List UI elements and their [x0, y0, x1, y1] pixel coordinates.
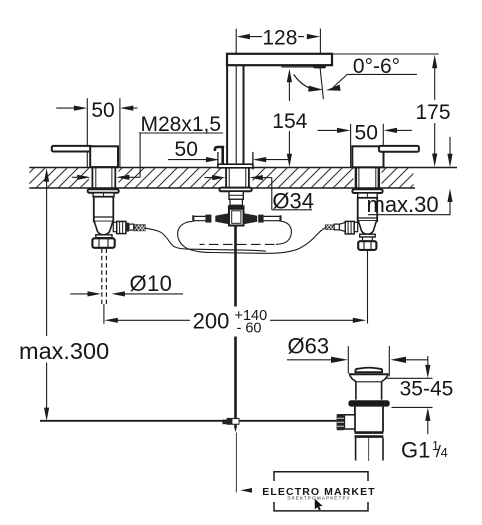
rod junction clamp inner	[232, 419, 238, 424]
drain body right wall	[382, 407, 384, 432]
diameter 63 right shaft	[405, 359, 428, 361]
left valve nut	[92, 238, 114, 248]
dimension max30 arrow down	[447, 154, 452, 167]
middle 50 arrow left	[253, 157, 266, 162]
right valve outlet tube	[334, 224, 339, 230]
dimension 128 arrow left	[237, 34, 250, 39]
middle 50 dim left shaft	[168, 159, 207, 161]
svg-text:Ø63: Ø63	[288, 334, 330, 359]
drain lever collar	[344, 415, 355, 429]
hose from T right tube	[276, 221, 291, 244]
M28 left arrow shaft	[72, 176, 79, 178]
dimension 200 arrow right	[353, 318, 366, 323]
T left tube	[194, 216, 205, 220]
dimension 128 left extension (shared riser line above)	[319, 29, 321, 54]
spout base upper left edge	[217, 152, 219, 164]
angle arc	[294, 75, 318, 91]
right valve outlet step	[354, 222, 358, 231]
drain body left wall	[354, 407, 356, 432]
center neck upper	[229, 191, 243, 199]
dimension 200 line left	[117, 319, 191, 321]
T right cone fitting	[244, 213, 258, 224]
spout horizontal body	[227, 54, 332, 65]
left valve outlet ridges	[120, 221, 123, 233]
countertop hatching	[14, 167, 431, 188]
drain flange plate	[349, 373, 389, 375]
left handle 50 arrow right	[74, 106, 87, 111]
left valve outlet tube	[129, 224, 134, 230]
left valve collar	[93, 193, 114, 197]
left valve outlet dark band	[126, 223, 129, 232]
drain funnel right	[382, 374, 388, 400]
watermark frame top bracket	[274, 472, 368, 481]
spout riser left edge	[226, 65, 228, 164]
center shank in counter	[226, 168, 249, 188]
dimension diameter 10 left shaft	[70, 293, 89, 295]
T left small block	[205, 215, 211, 223]
dimension 35-45 arrow down	[425, 365, 430, 378]
left valve body band	[94, 216, 114, 218]
drain cap dome	[355, 368, 382, 373]
drain funnel left	[350, 374, 356, 400]
dimension 200 arrow left	[104, 318, 117, 323]
hose from T left tube to right valve	[178, 221, 326, 253]
svg-text:50: 50	[91, 99, 114, 122]
drain tailpipe right	[382, 438, 384, 461]
drain extension line right	[388, 346, 390, 376]
dimension 128 arrow right	[307, 34, 320, 39]
drain axis line	[368, 438, 370, 461]
right valve nut facets	[364, 241, 371, 250]
diameter 34 left shaft	[205, 177, 214, 179]
tilted stream line 6deg	[320, 67, 323, 99]
rod pointed tip	[234, 427, 237, 432]
dimension 128 line	[250, 36, 305, 38]
label M28x1,5 underline	[139, 132, 223, 134]
dimension max300 arrow up	[44, 168, 49, 181]
right valve outlet ridges	[348, 221, 351, 234]
dimension 175 arrow down	[432, 154, 437, 167]
left hose braid pattern	[135, 225, 146, 231]
left handle 50 extension left	[86, 98, 88, 167]
G1 fraction slash	[436, 445, 440, 457]
right valve nut	[358, 241, 376, 250]
dimension 175 arrow up	[432, 55, 437, 68]
middle 50 right shaft	[265, 159, 289, 161]
drain o-ring	[348, 400, 389, 406]
svg-text:50: 50	[355, 121, 378, 144]
left hose braided end block	[134, 224, 146, 231]
top reference line to 175 dim	[332, 53, 439, 55]
left valve outlet ridged nut	[117, 221, 126, 233]
svg-text:35-45: 35-45	[400, 378, 454, 401]
pop-up vertical rod	[234, 226, 237, 428]
T left cone fitting	[215, 213, 229, 224]
center neck lower	[230, 199, 242, 205]
left handle body	[90, 146, 118, 167]
angle leader arrowhead	[326, 85, 341, 91]
dimension max300 lower line	[46, 363, 48, 410]
right handle 50 dim line right	[396, 129, 412, 131]
drain knurled knob	[337, 414, 345, 430]
aerator	[312, 65, 328, 69]
rod junction clamp	[227, 418, 240, 425]
M28 arrow pointing left at shank	[116, 175, 129, 180]
right handle 50 extension right	[382, 124, 384, 167]
aerator reference line	[281, 66, 326, 68]
dimension 175 line upper	[434, 67, 436, 100]
spout riser 128 extension line	[235, 29, 237, 164]
right valve neck	[363, 237, 373, 241]
diameter 34 arrow right at center shank	[212, 175, 225, 180]
dashed pop-up rod left	[101, 249, 103, 305]
right valve collar	[358, 193, 378, 198]
center flange below counter	[220, 188, 252, 192]
svg-text:Ø10: Ø10	[130, 271, 173, 296]
right valve lower plate	[360, 234, 376, 237]
left handle 50 extension right	[119, 98, 121, 167]
left valve flange	[88, 189, 119, 193]
angle arc arrowhead right	[308, 86, 323, 92]
right handle lever	[379, 146, 419, 152]
diameter 34 leader vertical	[271, 178, 273, 210]
dimension diameter 10 right shaft	[124, 293, 184, 295]
dimension 154 arrow up	[287, 69, 292, 82]
right handle 50 arrow right	[337, 128, 350, 133]
svg-text:175: 175	[415, 101, 450, 124]
diameter 63 arrow left	[391, 357, 407, 363]
extension line below rod	[103, 304, 105, 324]
right hose braid pattern	[326, 225, 335, 230]
small arrow at axis bottom	[241, 488, 253, 493]
spout base plate	[218, 164, 253, 168]
drain lever horizontal rod	[40, 420, 337, 422]
spout base upper right edge	[252, 152, 254, 164]
drain tailpipe left	[355, 438, 357, 461]
left valve lower plate	[96, 235, 112, 238]
svg-text:max.300: max.300	[19, 338, 109, 364]
left handle 50 dim line left	[56, 107, 75, 109]
hose from left valve	[146, 228, 266, 251]
svg-text:50: 50	[175, 138, 198, 161]
right handle 50 extension left	[350, 124, 352, 167]
middle 50 arrow right	[206, 157, 219, 162]
label 0-6 degrees underline	[347, 73, 417, 75]
diameter 63 shaft underline	[287, 359, 334, 361]
right valve bowl	[358, 221, 376, 234]
dimension max300 upper line	[46, 181, 48, 337]
right handle 50 dim line left	[318, 129, 339, 131]
extension line at flange bottom	[385, 377, 433, 379]
right hose braided end block	[325, 225, 335, 231]
dimension max30 upper shaft	[449, 137, 451, 155]
left valve nut facets	[99, 238, 108, 248]
center dark band	[228, 205, 245, 209]
center T body	[229, 209, 244, 226]
right handle body	[352, 146, 383, 167]
extension line at o-ring	[392, 406, 433, 408]
T left tube end cap	[192, 215, 194, 221]
left valve body	[94, 197, 114, 222]
right valve collar split	[366, 193, 368, 198]
svg-text:G1: G1	[401, 438, 430, 463]
dimension 154 line upper	[288, 80, 290, 101]
dimension 35-45 arrow up	[425, 408, 430, 421]
drain neck line	[356, 381, 382, 383]
dimension diameter 10 arrow left	[112, 291, 125, 296]
drain knob ridges	[337, 418, 344, 426]
right handle 50 arrow left	[384, 128, 397, 133]
center T inner square	[232, 211, 241, 224]
right valve outlet cone	[339, 222, 345, 231]
M28 leader vertical	[139, 133, 141, 177]
svg-text:- 60: - 60	[237, 320, 262, 336]
right shank in counter	[356, 168, 379, 188]
dimension 35-45 upper shaft	[427, 356, 429, 367]
diameter 63 arrow right	[331, 357, 348, 363]
M28 arrow pointing right at shank	[77, 175, 90, 180]
dimension max30 lower shaft	[449, 201, 451, 215]
T right small block	[258, 215, 263, 223]
label diameter 34 underline	[272, 209, 312, 211]
T right tube end cap	[279, 215, 281, 221]
left valve collar split	[103, 193, 105, 197]
dimension max300 arrow down	[44, 408, 49, 421]
right valve extension line	[367, 251, 369, 324]
right valve body band	[358, 217, 378, 219]
dimension 175 line lower	[434, 123, 436, 155]
svg-text:max.30: max.30	[367, 192, 439, 217]
center neck line	[229, 194, 243, 196]
svg-text:0°-6°: 0°-6°	[353, 55, 400, 78]
left handle lever	[52, 146, 92, 152]
svg-text:4: 4	[441, 446, 448, 460]
left handle 50 dim line right	[132, 107, 138, 109]
M28 leader horizontal	[128, 176, 140, 178]
watermark frame bottom bracket	[274, 502, 368, 511]
rod junction nub	[222, 420, 226, 425]
hose hidden chain line	[200, 243, 275, 245]
left handle 50 arrow left	[120, 106, 133, 111]
dimension 154 line lower	[288, 131, 290, 155]
drain extension line left	[347, 346, 349, 374]
left valve bowl	[94, 222, 113, 235]
right valve flange	[352, 189, 382, 193]
svg-text:154: 154	[272, 110, 307, 133]
diameter 34 arrow left at center shank	[249, 175, 262, 180]
drain locknut	[355, 433, 384, 437]
angle label leader line	[333, 74, 347, 87]
mouse cursor	[315, 499, 323, 511]
svg-text:200: 200	[193, 309, 230, 334]
pop-up knob hook	[215, 147, 224, 165]
spout riser right edge	[243, 65, 245, 164]
dimension max30 arrow up	[447, 189, 452, 202]
center axis lower extension	[235, 433, 237, 493]
countertop bottom line	[29, 187, 415, 189]
left shank in counter	[92, 168, 115, 188]
dimension diameter 10 arrow right	[88, 291, 101, 296]
svg-text:128: 128	[262, 26, 297, 49]
countertop top line	[29, 167, 457, 169]
left valve outlet step	[113, 222, 116, 231]
right valve outlet ridged nut	[345, 221, 354, 234]
right valve body	[358, 198, 378, 221]
dimension 35-45 lower shaft	[427, 420, 429, 435]
dimension max30 shelf line	[368, 214, 451, 216]
diameter 34 right shaft	[262, 177, 272, 179]
T right tube	[264, 216, 280, 220]
svg-text:ЭЛЕКТРОМАРКЕТРУ: ЭЛЕКТРОМАРКЕТРУ	[287, 496, 351, 501]
dimension 154 arrow down	[287, 154, 292, 167]
dimension 200 line right	[270, 319, 354, 321]
